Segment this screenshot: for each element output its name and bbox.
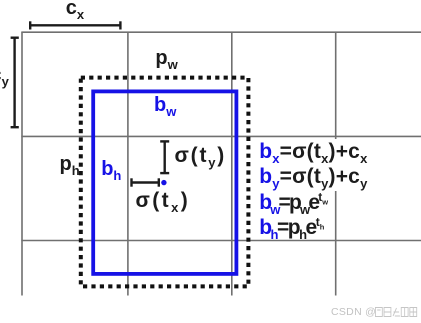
grid vertical line 3 — [231, 32, 233, 295]
c_x measurement bracket — [30, 21, 121, 29]
grid vertical line 4 — [335, 32, 337, 295]
equation b_y — [259, 166, 367, 187]
label p_h — [60, 154, 80, 174]
label b_w — [154, 95, 176, 115]
label p_w — [155, 48, 177, 68]
grid vertical line 2 — [127, 32, 129, 295]
equation background mask — [256, 139, 374, 191]
grid horizontal line bottom — [21, 240, 421, 242]
equation b_h — [259, 217, 324, 238]
c_y measurement bracket — [11, 38, 19, 128]
label c_y — [0, 65, 9, 85]
predicted box b (blue) — [93, 91, 236, 274]
sigma(t_y) offset bar — [160, 141, 169, 173]
label sigma(t_x) — [136, 190, 191, 211]
grid vertical line 1 — [21, 32, 23, 295]
prior anchor box p (dotted) — [81, 78, 249, 287]
equation b_x — [259, 141, 367, 162]
label c_x — [66, 0, 84, 18]
box center point — [161, 180, 166, 185]
grid horizontal line top — [21, 31, 421, 33]
sigma(t_x) offset bar — [131, 178, 159, 186]
watermark CJK glyph imitation — [375, 306, 418, 318]
label b_h — [101, 159, 121, 179]
watermark CSDN — [331, 307, 376, 318]
grid horizontal line middle — [21, 135, 421, 137]
equation b_w — [259, 192, 328, 213]
label sigma(t_y) — [175, 145, 227, 166]
